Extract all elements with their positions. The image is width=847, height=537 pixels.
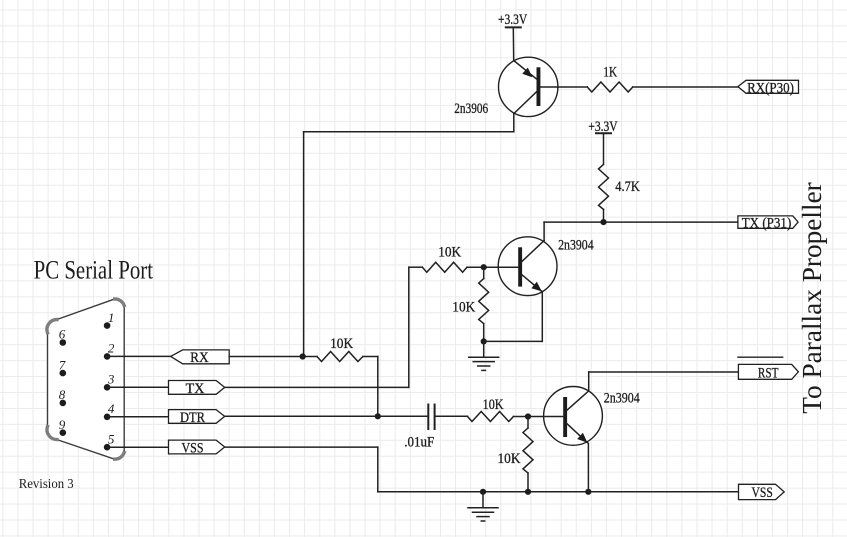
wire to R3 [409, 266, 423, 268]
junction RX node [300, 353, 306, 359]
wire ground rail [378, 491, 739, 493]
net flag TX [169, 381, 225, 395]
pin 4 [104, 414, 111, 421]
junction rail R7 [525, 489, 531, 495]
net flag RST [738, 364, 798, 379]
pin 8 [60, 400, 67, 407]
wire TX flag to riser [225, 386, 409, 388]
wire Q2 emitter to gnd node [484, 340, 543, 342]
svg-text:TX (P31): TX (P31) [742, 215, 792, 231]
pin 5 [104, 444, 111, 451]
power +3.3V V2 (middle) [596, 133, 611, 164]
wire R2 to TX junction [603, 209, 605, 222]
resistor R6 10K (Q3 base) [468, 412, 514, 422]
junction TX node [600, 219, 606, 225]
wire vertical to RX junction [303, 132, 305, 357]
svg-text:1: 1 [108, 310, 115, 325]
svg-text:4.7K: 4.7K [615, 179, 640, 195]
resistor R4 10K (Q2 base to gnd) [479, 267, 489, 341]
wire R5 to corner [363, 356, 378, 358]
svg-text:10K: 10K [483, 397, 504, 413]
svg-text:+3.3V: +3.3V [588, 119, 617, 135]
svg-text:RST: RST [758, 365, 779, 381]
pin 1 [104, 322, 111, 329]
svg-text:VSS: VSS [182, 441, 204, 457]
wire Q3 collector to RST flag [589, 371, 739, 373]
resistor R3 10K (Q2 base) [422, 262, 467, 272]
wire to R5 [303, 356, 317, 358]
resistor R2 4.7K [599, 164, 609, 209]
wire R3 to Q2 base [467, 266, 484, 268]
svg-text:RX(P30): RX(P30) [747, 80, 794, 96]
resistor R5 10K (RX row) [317, 352, 363, 362]
pin 6 [60, 339, 67, 346]
svg-text:PC Serial Port: PC Serial Port [34, 256, 154, 285]
pin 7 [60, 370, 67, 377]
net flag RX(P30) [738, 80, 799, 93]
wire Q1 collector down [304, 131, 514, 133]
svg-text:2n3904: 2n3904 [558, 238, 594, 254]
svg-text:9: 9 [59, 417, 66, 432]
wire R6 to Q3 base [513, 416, 528, 418]
DB9 connector J1 outline [47, 299, 124, 459]
junction rail gnd tap [480, 489, 486, 495]
net flag VSS [169, 440, 225, 454]
wire corner down to DTR junction [377, 357, 379, 417]
junction Q2 base [481, 264, 487, 270]
wire RX flag to junction [229, 356, 303, 358]
wire pin3 to TX flag [107, 386, 168, 388]
resistor R1 1K [587, 82, 632, 92]
svg-text:VSS: VSS [752, 485, 773, 501]
net flag VSS (right) [739, 484, 785, 499]
svg-text:DTR: DTR [180, 410, 205, 426]
svg-text:.01uF: .01uF [404, 434, 434, 450]
ground GND2 [468, 492, 498, 521]
net flag RX [171, 350, 230, 364]
svg-text:7: 7 [59, 357, 66, 372]
power +3.3V V1 (top) [506, 27, 521, 60]
svg-text:Revision 3: Revision 3 [19, 477, 74, 492]
wire pin2 to RX flag [107, 355, 171, 357]
net flag TX (P31) [738, 216, 798, 228]
junction Q2 emitter/gnd [481, 338, 487, 344]
wire TX riser [408, 267, 410, 387]
svg-text:2n3906: 2n3906 [454, 101, 488, 117]
wire DTR junction to C1 [378, 415, 428, 417]
svg-text:RX: RX [190, 350, 209, 366]
wire R1 to RX(P30) flag [633, 86, 738, 88]
transistor Q1 2n3906 PNP [499, 57, 558, 132]
svg-text:2n3904: 2n3904 [604, 390, 640, 406]
pin 9 [60, 429, 67, 436]
svg-text:1K: 1K [603, 64, 617, 80]
wire Q1 base to R1 [558, 86, 587, 88]
capacitor C1 .01uF [428, 405, 434, 430]
wire pin5 to VSS flag [107, 446, 168, 448]
junction DTR node [375, 413, 381, 419]
wire C1 to R6 [435, 415, 468, 417]
pin 3 [104, 384, 111, 391]
wire Q2 collector to TX (P31) flag [544, 221, 738, 223]
junction rail Q3 emitter [585, 489, 591, 495]
svg-text:10K: 10K [438, 244, 461, 260]
wire pin4 to DTR flag [107, 416, 168, 418]
RST overbar [738, 356, 783, 358]
svg-text:10K: 10K [330, 336, 353, 352]
svg-text:To Parallax Propeller: To Parallax Propeller [797, 182, 827, 414]
svg-text:4: 4 [108, 401, 115, 416]
svg-text:2: 2 [108, 341, 115, 356]
wire VSS flag right [225, 446, 378, 448]
svg-text:5: 5 [108, 431, 115, 446]
wire VSS corner down [377, 447, 379, 492]
svg-text:TX: TX [186, 381, 205, 397]
svg-text:10K: 10K [452, 299, 475, 315]
transistor Q2 2n3904 NPN [484, 222, 557, 341]
svg-text:10K: 10K [498, 451, 521, 467]
junction Q3 base [525, 413, 531, 419]
wire DTR flag to junction [225, 415, 378, 417]
resistor R7 10K (Q3 base to gnd) [523, 417, 533, 492]
svg-text:8: 8 [59, 387, 66, 402]
svg-text:3: 3 [107, 372, 115, 387]
svg-text:+3.3V: +3.3V [498, 12, 527, 28]
net flag DTR [169, 410, 225, 424]
transistor Q3 2n3904 NPN [528, 372, 602, 492]
pin 2 [104, 353, 111, 360]
svg-text:6: 6 [59, 327, 66, 342]
ground GND1 [469, 341, 499, 370]
